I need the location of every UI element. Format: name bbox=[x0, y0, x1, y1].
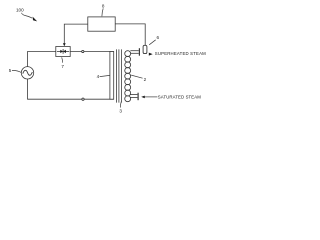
svg-text:4: 4 bbox=[97, 74, 100, 79]
svg-text:SUPERHEATED STEAM: SUPERHEATED STEAM bbox=[155, 51, 206, 56]
wire unit7 to heater bbox=[70, 51, 114, 53]
wire bottom horizontal bbox=[27, 98, 114, 100]
node top bbox=[82, 50, 84, 52]
wire top left horizontal bbox=[27, 51, 56, 53]
wire controller to gate bbox=[64, 24, 88, 43]
wire controller to sensor 6 bbox=[115, 24, 145, 45]
svg-text:2: 2 bbox=[144, 77, 147, 82]
sensor 6 bbox=[143, 45, 147, 53]
core plates 3 bbox=[115, 49, 117, 102]
controller 8 bbox=[88, 17, 115, 31]
label 2 bbox=[131, 75, 142, 78]
saturated steam arrow bbox=[141, 96, 145, 99]
outlet pipe top bbox=[130, 50, 138, 52]
inlet pipe bottom bbox=[130, 94, 137, 96]
svg-text:7: 7 bbox=[61, 64, 64, 69]
svg-text:6: 6 bbox=[157, 35, 160, 40]
leader arrow for 100 bbox=[22, 13, 33, 18]
svg-text:3: 3 bbox=[119, 109, 122, 114]
thyristor unit 7 bbox=[56, 47, 70, 57]
label 7 bbox=[61, 57, 64, 62]
steam coil 2 bbox=[125, 51, 131, 102]
svg-text:100: 100 bbox=[16, 8, 24, 13]
inlet flange bbox=[137, 93, 139, 101]
superheated steam arrow bbox=[149, 53, 153, 56]
heating coil 4 bbox=[110, 52, 114, 100]
outlet flange bbox=[138, 48, 140, 56]
svg-text:8: 8 bbox=[102, 4, 105, 9]
svg-text:SATURATED STEAM: SATURATED STEAM bbox=[158, 95, 201, 100]
AC source 5 bbox=[21, 67, 33, 79]
node bottom bbox=[82, 98, 84, 100]
svg-text:5: 5 bbox=[9, 68, 12, 73]
wire left vertical bbox=[27, 52, 29, 100]
label 3 bbox=[120, 101, 123, 108]
